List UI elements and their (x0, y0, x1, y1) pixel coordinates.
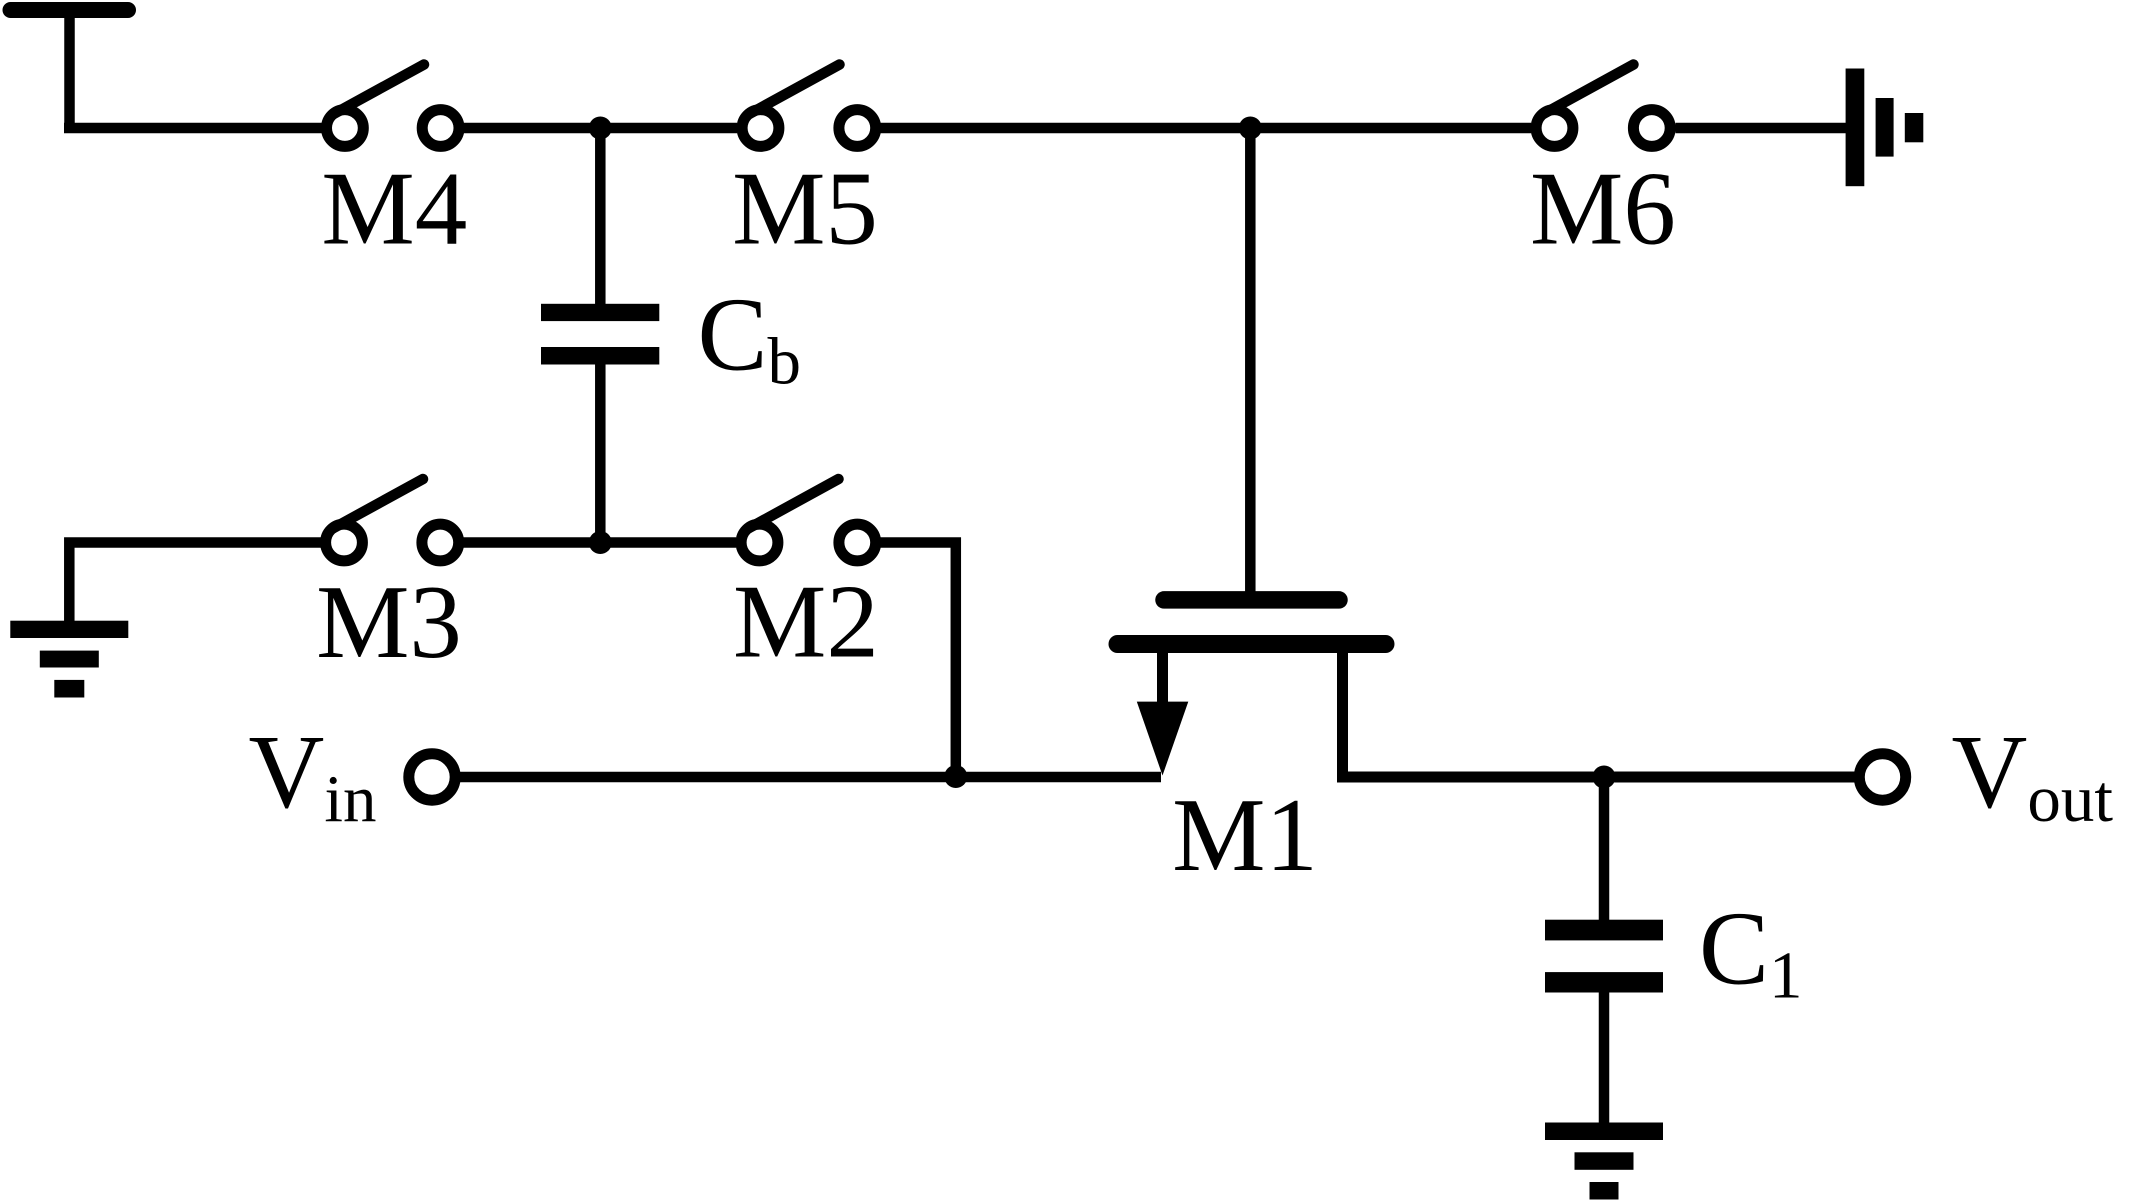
svg-text:M1: M1 (1172, 776, 1318, 893)
svg-text:M6: M6 (1530, 150, 1676, 267)
svg-text:M5: M5 (732, 150, 878, 267)
svg-text:M2: M2 (733, 563, 879, 680)
svg-text:M3: M3 (316, 563, 462, 680)
svg-text:M4: M4 (321, 150, 467, 267)
